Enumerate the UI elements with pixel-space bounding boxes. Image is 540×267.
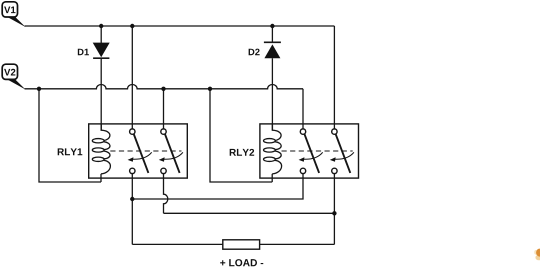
junction V2/coil1 return — [37, 87, 41, 91]
relay RLY2 pin circles — [300, 129, 337, 174]
wire RLY1 coil bottom stub — [100, 174, 102, 182]
relay RLY2 contact1 blade — [305, 134, 320, 173]
label D2 — [249, 49, 260, 56]
wire V2 to RLY1 contact 2 — [163, 89, 165, 131]
junction V1/D1 — [99, 24, 103, 28]
watermark — [534, 249, 540, 261]
relay RLY2 contact2 blade — [336, 134, 351, 173]
junction rail B / RLY2 contact2 drop — [332, 211, 336, 215]
net label V1 — [2, 2, 25, 27]
label RLY1 — [58, 148, 83, 155]
relay RLY2 contact2 arrow — [330, 152, 354, 162]
relay RLY1 pin circles — [130, 129, 167, 174]
relay RLY1 contact1 blade — [134, 134, 149, 173]
label RLY2 — [230, 149, 254, 156]
junction V1/contact wire — [130, 24, 134, 28]
wire RLY2 contact2 bottom to bottom rail — [333, 174, 335, 245]
wire bottom rail left — [132, 243, 223, 245]
wire D2 cathode from V1 — [271, 26, 273, 42]
relay RLY1 box — [89, 124, 188, 178]
load resistor — [223, 240, 260, 249]
wire D1 anode from V1 — [100, 26, 102, 43]
junction V2/RLY1 contact2 — [161, 87, 165, 91]
relay RLY2 box — [260, 124, 359, 178]
junction V2/coil2 return — [208, 87, 212, 91]
wire V1 to RLY1 contact 1 — [131, 26, 133, 131]
label D1 — [78, 49, 89, 55]
wire RLY2 coil bottom stub — [271, 174, 273, 182]
wire RLY1 contact1 bottom to bottom rail — [131, 174, 133, 245]
wire V1 rail — [25, 25, 335, 27]
wire mid rail B to RLY2 contact2 drop — [164, 212, 335, 214]
junction rail A / RLY1 contact1 drop — [130, 197, 134, 201]
net label V2 — [2, 64, 25, 89]
relay RLY1 contact1 arrow — [128, 152, 152, 162]
relay RLY2 contact1 arrow — [299, 152, 323, 162]
relay RLY2 — [260, 124, 359, 178]
relay RLY1 linkage dashed line — [110, 150, 181, 152]
relay RLY2 coil — [264, 124, 282, 174]
wire D2 anode to RLY2 coil — [271, 58, 273, 130]
diode D1 — [93, 43, 110, 59]
wire V2 to RLY2 coil return — [210, 89, 272, 182]
wire bottom rail right — [260, 243, 335, 245]
wire V2 rail with hops at x=101.4,132.3,272.4 — [25, 85, 304, 89]
relay RLY1 coil — [92, 124, 110, 174]
relay RLY1 contact2 blade — [165, 134, 180, 173]
wire mid rail A to RLY2 contact1 — [132, 174, 303, 199]
relay RLY1 — [89, 124, 188, 178]
wire D1 cathode to RLY1 coil — [100, 58, 102, 130]
wire V1 end drop to RLY2 pin — [333, 26, 335, 131]
relay RLY2 linkage dashed line — [282, 150, 353, 152]
wire V2 end drop to RLY2 pin — [302, 89, 304, 131]
diode D2 — [264, 42, 281, 58]
label LOAD — [220, 259, 263, 266]
junction V1/D2 — [270, 24, 274, 28]
wire V2 to RLY1 coil return — [39, 89, 101, 182]
wire RLY1 contact2 bottom with hop over rail A — [164, 174, 168, 213]
relay RLY1 contact2 arrow — [159, 152, 183, 162]
